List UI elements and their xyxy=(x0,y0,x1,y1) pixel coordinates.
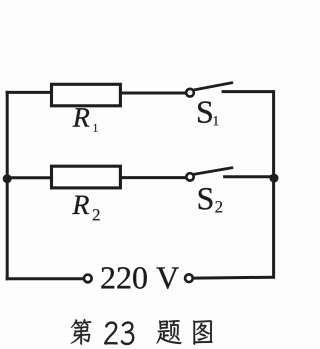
wire bottom-right segment xyxy=(194,276,275,280)
label R1 subscript 1 xyxy=(94,124,98,132)
label 220 V letter V xyxy=(156,267,178,288)
wire R2 to switch S2 xyxy=(120,176,186,179)
wire S2 contact to right junction xyxy=(223,175,274,178)
wire R1 to switch S1 xyxy=(120,92,186,95)
wire top-left segment xyxy=(6,91,52,94)
label S1 subscript 1 xyxy=(214,116,219,125)
resistor R2 xyxy=(52,166,121,188)
wire right vertical xyxy=(272,90,275,278)
terminal right of 220 V xyxy=(185,274,193,282)
caption char 图 xyxy=(193,320,213,344)
label R2 subscript 2 xyxy=(93,209,100,220)
label R1 letter R xyxy=(73,108,90,126)
caption number 23 xyxy=(104,322,134,345)
terminal left of 220 V xyxy=(84,275,92,283)
switch S2 xyxy=(186,168,232,181)
label S2 letter S xyxy=(199,188,213,210)
caption char 题 xyxy=(156,320,181,344)
label S2 subscript 2 xyxy=(215,201,222,212)
junction dot left xyxy=(3,174,12,183)
label S1 letter S xyxy=(198,101,212,123)
label 220 V digit 2 xyxy=(101,267,114,288)
wire middle-left segment xyxy=(6,176,52,179)
resistor R1 xyxy=(52,84,121,106)
switch S1 xyxy=(186,83,232,97)
label R2 letter R xyxy=(72,196,89,214)
caption char 第 xyxy=(71,319,92,345)
label 220 V digit 2 xyxy=(117,267,130,288)
wire S1 contact to top-right corner xyxy=(222,90,274,93)
junction dot right xyxy=(270,174,279,183)
wire bottom-left segment xyxy=(6,277,84,280)
wire left vertical xyxy=(6,91,9,280)
label 220 V digit 0 xyxy=(133,267,147,289)
